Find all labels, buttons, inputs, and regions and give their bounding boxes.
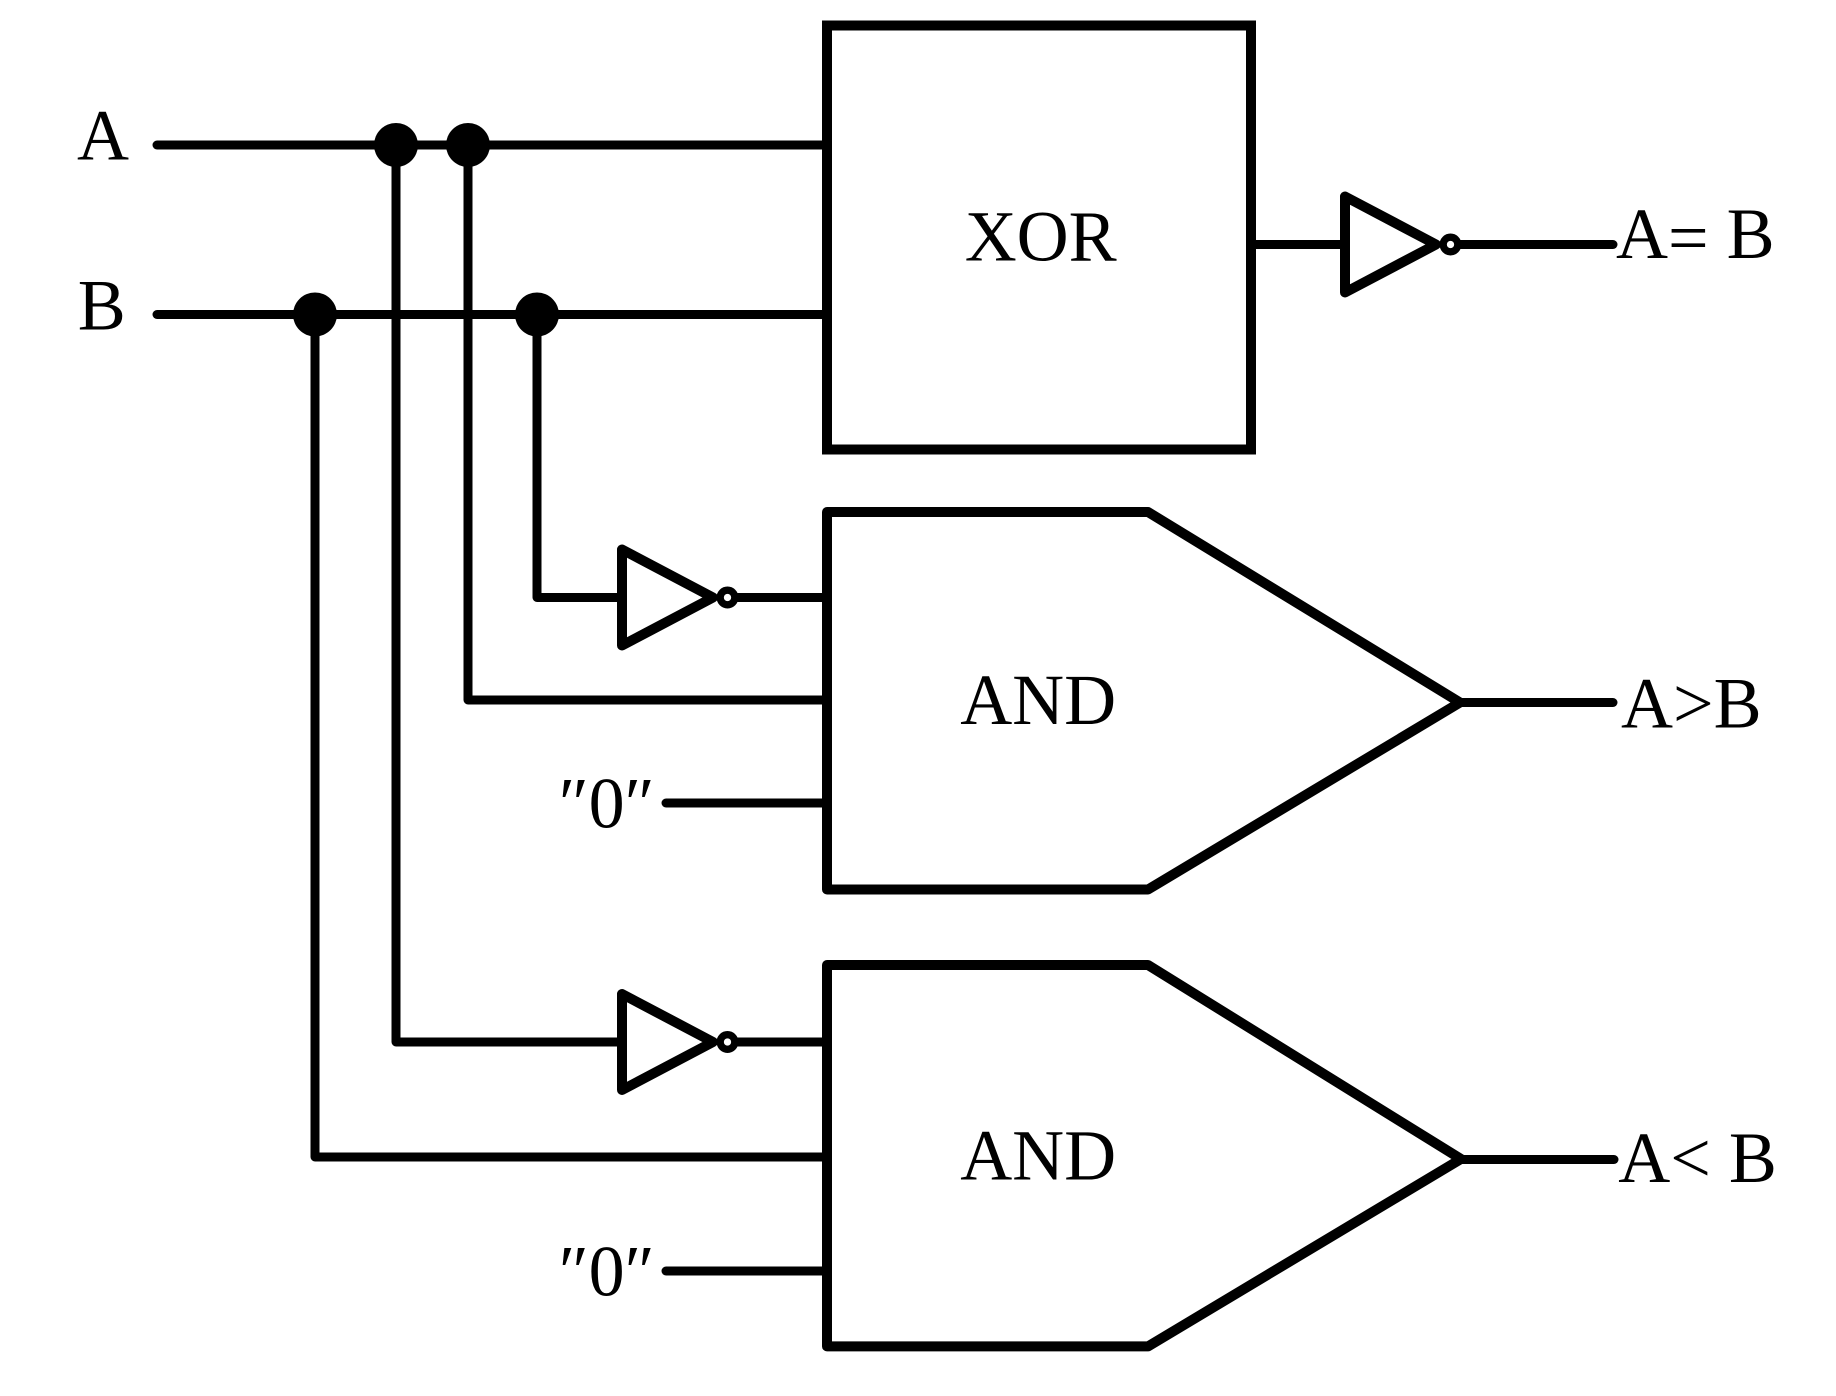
wire from junction A1 down to inverter U3 input [396, 145, 617, 1042]
wire from junction A2 down to AND1 middle input [468, 145, 832, 700]
wire B (input B to XOR pin) [157, 310, 829, 319]
wire AND2 output to label A<B [1461, 1155, 1614, 1164]
svg-text:XOR: XOR [965, 196, 1117, 276]
svg-text:AND: AND [960, 1115, 1116, 1195]
wire from junction B1 down to AND2 middle input [315, 315, 832, 1158]
svg-text:A>B: A>B [1621, 664, 1762, 744]
svg-text:A< B: A< B [1618, 1118, 1777, 1198]
inverter U4 triangle [1345, 197, 1436, 293]
inverter U2 bubble [720, 590, 735, 605]
AND gate AND1 body [827, 512, 1460, 890]
svg-text:AND: AND [960, 660, 1116, 740]
svg-text:A= B: A= B [1616, 194, 1775, 278]
junction B1 (node on wire B, x=315) [293, 293, 337, 337]
wire XOR output to inverter U4 [1251, 240, 1345, 249]
junction A1 (node on wire A, x=396) [374, 123, 418, 167]
svg-text:B: B [78, 266, 126, 346]
wire constant 0 to AND2 bottom input [666, 1267, 829, 1276]
svg-text:″0″: ″0″ [559, 764, 655, 844]
inverter U3 bubble [720, 1035, 735, 1050]
XOR gate U1 box [827, 26, 1251, 450]
wire from junction B2 down to inverter U2 input [537, 315, 617, 598]
wire inverter U3 output to AND2 top input [735, 1038, 832, 1047]
wire constant 0 to AND1 bottom input [666, 799, 829, 808]
svg-text:″0″: ″0″ [559, 1232, 655, 1312]
inverter U2 triangle [622, 550, 713, 646]
svg-text:A: A [77, 96, 129, 176]
inverter U3 triangle [622, 994, 713, 1090]
wire inverter U4 output to label A=B [1459, 240, 1613, 249]
wire A (input A to XOR pin) [157, 141, 829, 150]
inverter U4 bubble [1443, 237, 1458, 252]
AND gate AND2 body [827, 965, 1461, 1346]
junction A2 (node on wire A, x=468) [446, 123, 490, 167]
junction B2 (node on wire B, x=537) [515, 293, 559, 337]
wire AND1 output to label A>B [1460, 698, 1613, 707]
wire inverter U2 output to AND1 top input [735, 593, 832, 602]
